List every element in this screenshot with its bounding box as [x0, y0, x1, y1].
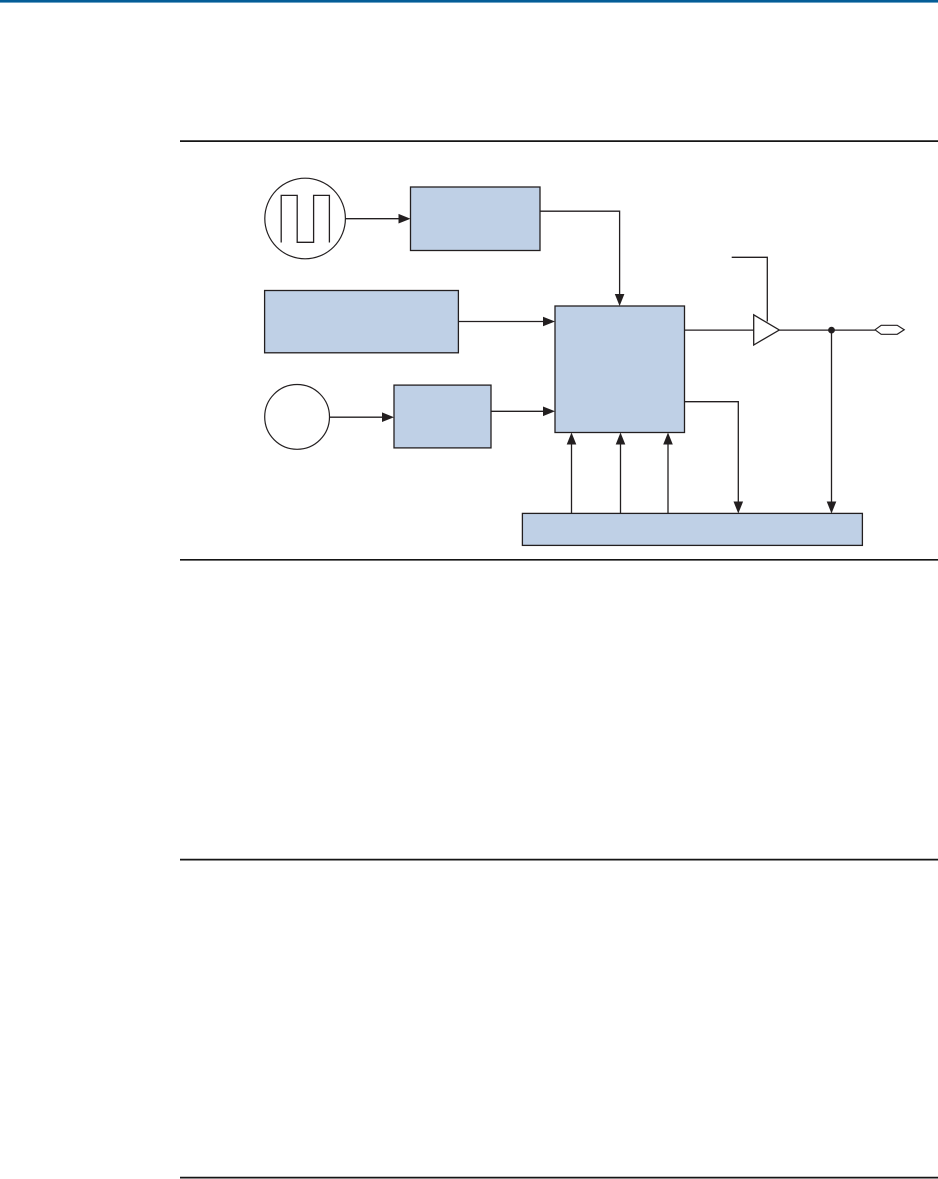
source CS2 [265, 385, 330, 450]
wire source CS2 to block B3 [330, 412, 394, 422]
bus wire 2 to block U1 [616, 433, 626, 514]
wire block U1 to bus [685, 402, 744, 514]
header bar [0, 0, 938, 3]
wire node J1 to bus [827, 330, 837, 513]
bus block [522, 513, 862, 545]
wire buffer to pin [779, 329, 875, 331]
enable wire to buffer [732, 257, 768, 321]
middle rule [180, 559, 938, 561]
block B3 [394, 385, 491, 448]
wire block B1 to block U1 top [540, 211, 624, 306]
bottom rule [180, 1177, 938, 1179]
pulse generator source CS1 [265, 178, 346, 259]
wire block B3 to block U1 [491, 407, 555, 417]
bus wire 1 to block U1 [567, 433, 577, 514]
block B1 [411, 187, 541, 251]
top rule [180, 140, 938, 142]
block U1 [555, 306, 685, 433]
block B2 [265, 291, 459, 353]
node J1 [828, 327, 835, 334]
output pin [875, 325, 904, 334]
output buffer [754, 315, 780, 345]
wire pulse source to block B1 [346, 214, 411, 224]
bus wire 3 to block U1 [663, 433, 673, 514]
lower rule [180, 859, 938, 861]
wire block B2 to block U1 [458, 317, 555, 327]
wire block U1 output to buffer [685, 329, 754, 331]
